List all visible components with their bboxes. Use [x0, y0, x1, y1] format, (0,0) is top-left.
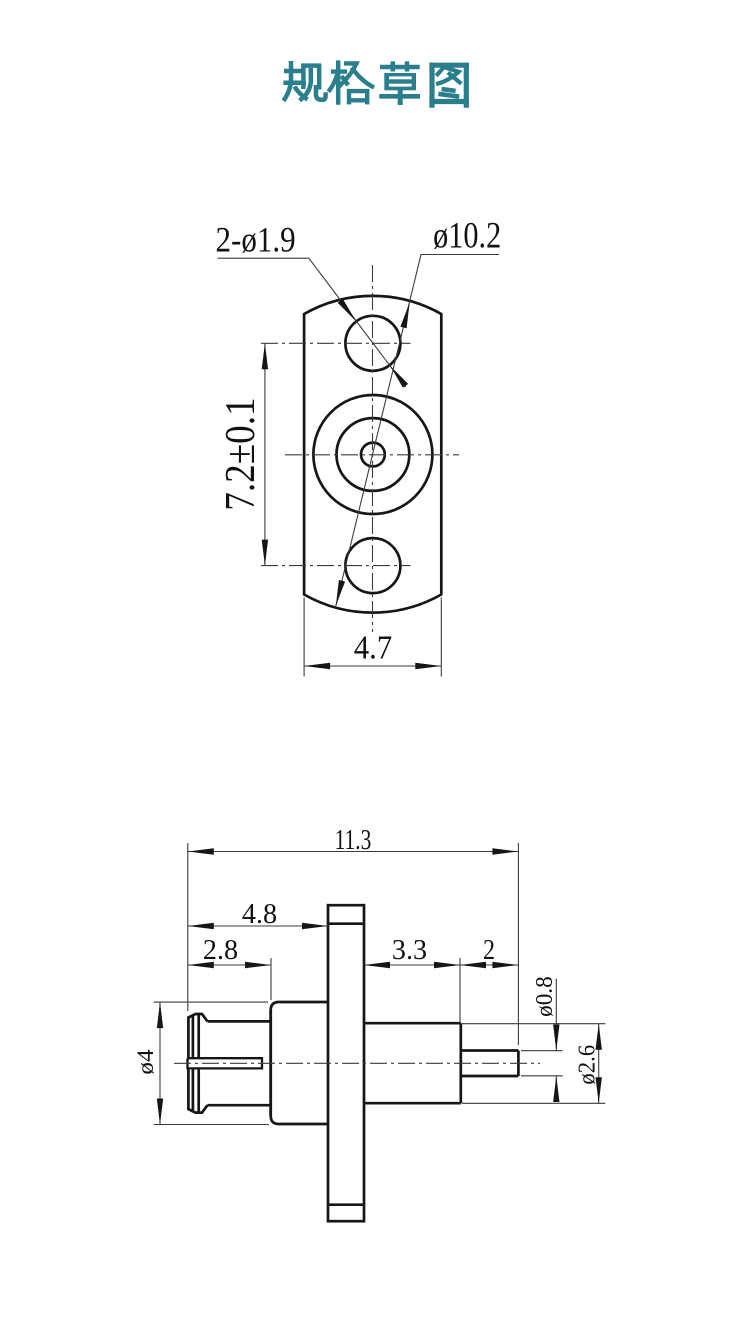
- dimension 4.8 line: [188, 925, 328, 927]
- dimension o0.8 line segments: [555, 979, 557, 1051]
- bottom mounting hole circle (2-o1.9): [345, 538, 400, 593]
- side view centerline: [174, 1062, 540, 1064]
- leader arrowhead at top hole lower-right edge: [390, 365, 408, 388]
- dimension 2.8 line: [188, 964, 271, 966]
- horizontal centerline bottom hole / extension 7.2: [261, 565, 411, 567]
- dimension 11.3 line: [188, 851, 519, 853]
- crown lip lower inner lines: [192, 1069, 195, 1111]
- center connector middle circle: [337, 418, 410, 491]
- horizontal centerline center circle: [285, 454, 459, 456]
- dimension o2.6 extension lines: [462, 1023, 605, 1025]
- dimension 4.7 extension lines: [303, 598, 305, 677]
- top mounting hole circle (2-o1.9): [345, 316, 400, 371]
- pin end cap: [517, 1051, 520, 1077]
- flange outline (top view, stadium shape with arc ends): [304, 296, 441, 613]
- side view: crown lip upper outline: [188, 1014, 207, 1058]
- svg-text:2-ø1.9: 2-ø1.9: [216, 220, 296, 260]
- rear cylinder bottom edge: [364, 1102, 461, 1105]
- pin top edge: [461, 1049, 519, 1052]
- flange arc tangent line top: [328, 922, 364, 925]
- svg-text:ø10.2: ø10.2: [433, 216, 501, 256]
- horizontal centerline top hole / extension 7.2: [261, 342, 411, 344]
- title text 规格草图 (hand-drawn glyph strokes): [283, 60, 469, 107]
- dimension o2.6 line: [598, 1024, 600, 1104]
- center contact slot bar: [188, 1058, 263, 1068]
- svg-text:7.2±0.1: 7.2±0.1: [217, 397, 263, 510]
- svg-text:2: 2: [483, 933, 495, 966]
- svg-text:ø4: ø4: [134, 1049, 159, 1074]
- dimension o4 line: [159, 1002, 161, 1124]
- dimension o0.8 extension lines: [521, 1050, 563, 1052]
- svg-text:3.3: 3.3: [392, 935, 427, 966]
- leader line for 2-o1.9 (through top hole): [218, 258, 406, 387]
- body/barrel junction face line: [269, 1010, 272, 1115]
- body block (rounded left corners): [271, 1002, 328, 1124]
- svg-text:4.8: 4.8: [242, 899, 277, 930]
- o10.2 arrowhead at top arc: [400, 302, 409, 328]
- svg-text:4.7: 4.7: [354, 628, 392, 666]
- dimension 2 line: [460, 964, 518, 966]
- leader/diameter line for o10.2 (across flange arcs): [336, 255, 499, 607]
- dimension 11.3 extension lines: [187, 843, 189, 1011]
- dimension 3.3 / 2 shared extension line: [459, 958, 461, 1022]
- flange plate outline: [328, 905, 364, 1221]
- pin bottom edge: [461, 1075, 519, 1078]
- vertical centerline (top view): [372, 265, 374, 632]
- svg-text:11.3: 11.3: [335, 825, 372, 855]
- rear cylinder top edge: [364, 1022, 461, 1025]
- barrel top edge: [208, 1020, 271, 1023]
- center connector inner pin circle: [361, 443, 385, 467]
- dimension 7.2±0.1 line: [264, 343, 266, 565]
- flange arc tangent line bottom: [328, 1203, 364, 1206]
- leader arrowhead at top hole upper-left edge: [338, 299, 356, 322]
- svg-text:2.8: 2.8: [203, 935, 238, 966]
- dimension o4 extension lines: [154, 1001, 268, 1003]
- dimension 4.7 line: [304, 665, 441, 667]
- rear cylinder end face: [459, 1023, 462, 1103]
- dimension 2.8 extension line: [270, 958, 272, 1000]
- center connector outer circle: [313, 395, 432, 514]
- crown lip upper inner lines: [192, 1016, 195, 1058]
- crown lip lower outline: [188, 1069, 207, 1113]
- svg-text:ø2.6: ø2.6: [574, 1045, 601, 1085]
- o10.2 arrowhead at bottom arc: [336, 580, 345, 606]
- svg-text:ø0.8: ø0.8: [531, 976, 558, 1017]
- dimension 3.3 line: [364, 964, 460, 966]
- barrel bottom edge: [208, 1104, 271, 1107]
